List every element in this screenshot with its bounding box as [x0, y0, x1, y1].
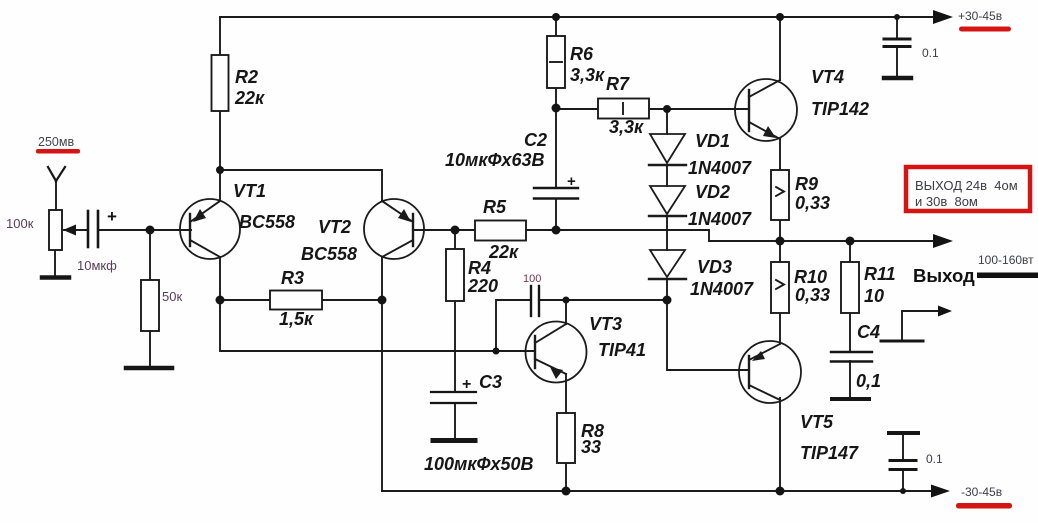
wire 100p to VT3 collector node [539, 299, 566, 301]
svg-text:R6: R6 [570, 44, 594, 64]
junction node R8 rail [562, 487, 571, 496]
svg-text:VT5: VT5 [800, 412, 834, 432]
resistor R5 [475, 221, 526, 241]
wire R11 top [849, 241, 851, 262]
arrow jack [938, 306, 952, 317]
capacitor 0.1 top right [884, 39, 911, 78]
junction node VT4 collector rail [776, 13, 784, 21]
svg-text:Выход: Выход [913, 265, 975, 286]
resistor R3 [270, 291, 322, 310]
junction node input [146, 226, 155, 235]
wire R8 bottom to -V rail [565, 463, 567, 491]
junction node VD3 VT5 base [663, 296, 672, 305]
wire diode node to VT4 base [667, 108, 749, 110]
diode VD3 [649, 250, 686, 279]
wire C2 bottom to feedback node [555, 199, 557, 230]
wire VD2-VD3 [666, 216, 668, 250]
wire R4 bottom to C3 [454, 301, 456, 391]
wire C4 to end bar [849, 361, 851, 397]
wire R4 top [454, 230, 456, 249]
svg-text:+30-45в: +30-45в [958, 9, 1002, 23]
svg-text:VT1: VT1 [233, 181, 266, 201]
wire pot bottom [54, 250, 56, 276]
wire VT4 collector up to rail [779, 17, 781, 80]
svg-text:VT4: VT4 [811, 67, 844, 87]
svg-text:ВЫХОД 24в 4ом: ВЫХОД 24в 4ом [915, 178, 1018, 193]
ground 50k [126, 366, 172, 371]
junction node 100p VT3 collector [563, 297, 570, 304]
svg-text:0,33: 0,33 [795, 193, 830, 213]
resistor R7 [598, 99, 649, 119]
wire antenna stem [55, 181, 57, 211]
resistor R4 [446, 249, 464, 301]
wire R11 bottom to C4 [849, 313, 851, 352]
svg-text:250мв: 250мв [38, 135, 74, 149]
wire top 0.1 cap drop [896, 17, 898, 37]
svg-text:VT2: VT2 [318, 217, 351, 237]
svg-text:C2: C2 [524, 130, 547, 150]
resistor R6 power mark [550, 61, 562, 63]
junction node VT1 VT2 emitters [216, 166, 224, 174]
wire R2 top to rail [219, 17, 221, 55]
svg-text:R7: R7 [606, 74, 630, 94]
wire R5 right to C2 node [526, 229, 556, 231]
wire VT5 collector to -V rail [779, 398, 781, 491]
wire R2 bottom to emitter node [219, 111, 221, 171]
svg-text:VD1: VD1 [695, 131, 730, 151]
svg-text:R2: R2 [235, 67, 258, 87]
svg-text:-30-45в: -30-45в [961, 485, 1002, 499]
wire bottom 0.1 cap to rail [902, 470, 904, 491]
svg-text:0,1: 0,1 [856, 371, 881, 391]
svg-text:100-160вт: 100-160вт [978, 253, 1034, 267]
wire VT3 emitter to R8 [565, 374, 567, 413]
wire C3 to end bar [454, 404, 456, 438]
svg-text:100к: 100к [6, 216, 34, 231]
svg-text:10мкФх63В: 10мкФх63В [445, 150, 545, 170]
wire 50k to ground [149, 331, 151, 367]
resistor R9 power mark [776, 187, 784, 196]
ground pot [42, 275, 69, 280]
wire top +V rail [220, 16, 936, 18]
resistor R9 [771, 170, 789, 220]
transistor VT3 [526, 322, 587, 383]
svg-text:+: + [107, 207, 117, 226]
capacitor C4 0,1 [831, 352, 872, 399]
junction node 100p VT3 base [493, 348, 500, 355]
wire R7 right to diode top node [649, 108, 667, 110]
capacitor 100pF [531, 286, 539, 316]
wire diode bottom node to VT5 base [667, 300, 748, 370]
wire VT1 collector down [219, 257, 221, 300]
junction node R3 VT2 collector [378, 296, 387, 305]
svg-text:3,3к: 3,3к [570, 65, 605, 85]
junction node 0.1 cap rail bottom [900, 488, 906, 494]
wire R3 left [220, 299, 270, 301]
resistor R6 [547, 36, 565, 88]
wire bottom 0.1 cap from top bar [902, 434, 904, 459]
wire VD3 cathode to node [666, 279, 668, 300]
svg-text:VD2: VD2 [695, 182, 730, 202]
junction node R6 R7 C2 [552, 104, 561, 113]
capacitor C1 10uF input [88, 211, 98, 247]
resistor 50k [141, 280, 159, 331]
svg-text:1N4007: 1N4007 [688, 158, 752, 178]
junction node 0.1 cap rail [894, 14, 900, 20]
svg-text:VD3: VD3 [697, 257, 732, 277]
transistor VT5 [739, 341, 801, 403]
wire 100p stub to VT3 base line [496, 300, 530, 351]
svg-text:R10: R10 [794, 267, 827, 287]
wire R7 left [556, 108, 598, 110]
transistor VT2 [364, 199, 424, 259]
wire top 0.1 cap to end bar [896, 47, 898, 76]
wire VT2 base to R5 node [413, 229, 475, 231]
junction node VT5 collector rail [776, 487, 785, 496]
wire R7 node to C2 top [555, 109, 557, 187]
svg-text:R5: R5 [483, 197, 507, 217]
svg-text:50к: 50к [162, 289, 182, 304]
junction node R7 VD1 VT4 base [663, 105, 671, 113]
svg-text:BC558: BC558 [301, 244, 357, 264]
transistor VT1 [180, 199, 240, 259]
svg-text:BC558: BC558 [239, 212, 295, 232]
wire emitter rail VT1-VT2 [220, 170, 382, 200]
svg-text:C3: C3 [479, 372, 502, 392]
svg-text:R9: R9 [795, 174, 818, 194]
svg-text:33: 33 [581, 437, 601, 457]
junction node C2 R5 feedback [552, 226, 561, 235]
input antenna symbol [48, 167, 65, 181]
wire VT4 emitter to R9 [779, 139, 781, 170]
svg-text:3,3к: 3,3к [609, 117, 644, 137]
svg-text:+: + [462, 376, 471, 393]
svg-text:100: 100 [523, 273, 541, 285]
junction node VT2 base R5 R4 [451, 226, 460, 235]
wire R6 bottom to R7 node [555, 88, 557, 109]
resistor R11 [841, 262, 859, 313]
wire input node to VT1 base [99, 229, 191, 231]
wire bottom -V rail [382, 490, 936, 492]
svg-text:и 30в 8ом: и 30в 8ом [915, 194, 978, 209]
wire R3 right [322, 299, 382, 301]
output power bar [977, 273, 1038, 279]
wire VT3 collector node to diode node [566, 299, 667, 301]
svg-text:R4: R4 [468, 258, 491, 278]
wire node to 50k [149, 230, 151, 280]
resistor R10 [771, 262, 789, 313]
wire VD1 anode [666, 109, 668, 134]
potentiometer 100k body [49, 210, 62, 250]
svg-text:0.1: 0.1 [922, 46, 939, 60]
svg-text:0.1: 0.1 [926, 452, 943, 466]
junction node VT1 collector R3 [216, 296, 225, 305]
wire R6 top to rail [555, 17, 557, 36]
potentiometer wiper arrow [63, 225, 76, 236]
diode VD2 [649, 186, 686, 216]
junction node R9 R10 output [776, 237, 785, 246]
svg-text:R3: R3 [281, 268, 304, 288]
svg-text:R11: R11 [864, 264, 896, 284]
wire VD1-VD2 [666, 165, 668, 186]
svg-text:22к: 22к [234, 88, 265, 108]
output jack bar [881, 340, 923, 343]
svg-text:C4: C4 [857, 322, 880, 342]
note box VYHOD 24V 4ohm [906, 167, 1030, 211]
wire VT2 collector down to -V rail [381, 258, 383, 491]
svg-text:TIP147: TIP147 [800, 443, 859, 463]
arrow +V rail [933, 10, 953, 24]
svg-text:+: + [567, 173, 576, 190]
wire pot wiper to cap [64, 229, 87, 231]
svg-text:1N4007: 1N4007 [690, 279, 754, 299]
wire R9 bottom to output node [779, 220, 781, 241]
transistor VT4 [735, 79, 797, 141]
wire VT1 emitter up [219, 171, 221, 200]
svg-text:1N4007: 1N4007 [688, 209, 752, 229]
svg-text:1,5к: 1,5к [279, 309, 314, 329]
svg-text:10мкф: 10мкф [77, 258, 117, 273]
svg-text:220: 220 [467, 276, 498, 296]
svg-text:TIP41: TIP41 [598, 340, 646, 360]
svg-text:0,33: 0,33 [795, 285, 830, 305]
resistor R10 power mark [776, 280, 784, 289]
wire output node to R10 [779, 241, 781, 262]
arrow output [933, 234, 953, 248]
junction node R11 output [846, 237, 855, 246]
junction node R6 top rail [552, 13, 560, 21]
capacitor 0.1 bottom right [889, 433, 918, 470]
wire VT3 collector up [565, 300, 567, 324]
svg-text:22к: 22к [488, 242, 519, 262]
capacitor C2 10uFx63V [534, 188, 578, 199]
wire output line [780, 240, 936, 242]
wire feedback line with jog [556, 230, 780, 241]
wire output jack arm [902, 311, 940, 341]
arrow -V rail [931, 485, 950, 498]
svg-text:VT3: VT3 [589, 314, 622, 334]
svg-text:10: 10 [864, 286, 884, 306]
diode VD1 [649, 134, 686, 165]
resistor R8 [557, 413, 575, 463]
resistor R2 [212, 55, 229, 111]
resistor R7 power mark [622, 103, 624, 114]
svg-text:100мкФх50В: 100мкФх50В [424, 454, 534, 474]
svg-text:TIP142: TIP142 [811, 99, 869, 119]
capacitor C3 100uFx50V [431, 392, 476, 441]
wire R10 bottom to VT5 emitter [779, 313, 781, 343]
wire VT1 collector to VT3 base line [220, 300, 535, 351]
